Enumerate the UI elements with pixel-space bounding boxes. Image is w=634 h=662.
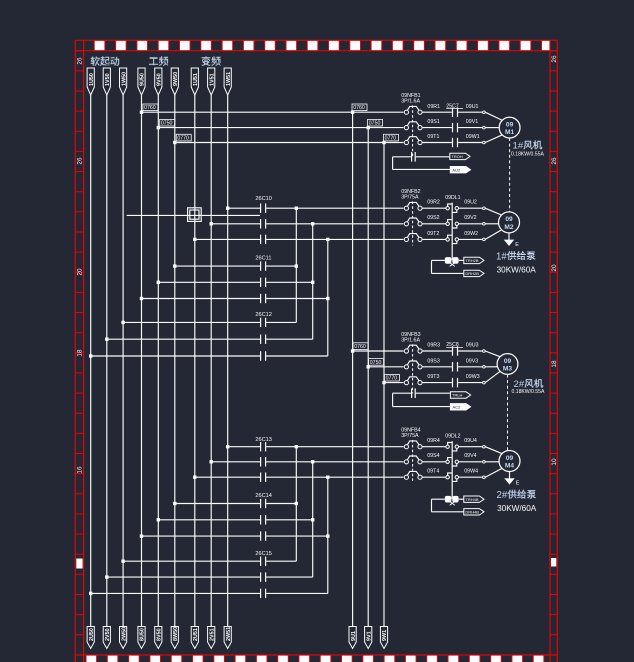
svg-text:2U50: 2U50 [89, 628, 95, 641]
svg-text:M3: M3 [503, 365, 512, 372]
svg-text:20: 20 [77, 268, 84, 276]
svg-text:M4: M4 [505, 462, 514, 469]
svg-text:TRH2B: TRH2B [465, 258, 478, 263]
svg-text:M2: M2 [504, 224, 513, 231]
svg-text:09R2: 09R2 [427, 200, 440, 206]
svg-text:TRH4B: TRH4B [465, 497, 478, 502]
svg-text:TRLH: TRLH [452, 393, 463, 398]
svg-text:18: 18 [551, 360, 558, 368]
svg-text:09R3: 09R3 [427, 343, 440, 349]
svg-text:0770: 0770 [386, 376, 398, 382]
svg-text:09R4: 09R4 [427, 438, 440, 444]
svg-text:18: 18 [77, 349, 84, 357]
svg-text:16: 16 [77, 466, 84, 474]
svg-text:10: 10 [551, 458, 558, 466]
svg-text:26: 26 [77, 157, 84, 165]
svg-text:E: E [515, 242, 519, 248]
svg-text:09: 09 [506, 121, 514, 128]
svg-text:26C12: 26C12 [255, 312, 271, 318]
svg-text:30KW/60A: 30KW/60A [497, 265, 537, 274]
svg-text:8U50: 8U50 [140, 628, 146, 641]
svg-text:09R1: 09R1 [427, 104, 440, 110]
svg-text:1#: 1# [496, 251, 507, 262]
svg-text:26C10: 26C10 [255, 196, 271, 202]
svg-text:09V3: 09V3 [466, 358, 478, 364]
svg-text:09W3: 09W3 [466, 374, 480, 380]
svg-text:09U1: 09U1 [466, 104, 479, 110]
svg-text:AC2: AC2 [453, 405, 462, 410]
svg-text:1V50: 1V50 [105, 73, 111, 86]
svg-text:M1: M1 [505, 129, 514, 136]
svg-text:20: 20 [551, 264, 558, 272]
svg-text:1W50: 1W50 [121, 72, 127, 86]
svg-text:TROH: TROH [451, 154, 462, 159]
svg-text:0750: 0750 [370, 360, 382, 366]
svg-text:26: 26 [551, 157, 558, 165]
svg-text:1V51: 1V51 [209, 73, 215, 86]
svg-text:09T1: 09T1 [427, 134, 439, 140]
svg-text:E: E [516, 480, 520, 486]
svg-text:8W50: 8W50 [173, 627, 179, 641]
svg-text:09: 09 [505, 216, 513, 223]
svg-text:26: 26 [77, 57, 84, 65]
svg-text:0750: 0750 [161, 121, 173, 127]
svg-text:9W1: 9W1 [382, 630, 388, 641]
svg-text:09V2: 09V2 [464, 215, 476, 221]
svg-text:09W4: 09W4 [464, 469, 478, 475]
svg-text:09W2: 09W2 [464, 231, 478, 237]
svg-text:DRH4B: DRH4B [465, 509, 479, 514]
svg-text:0760: 0760 [144, 105, 156, 111]
svg-text:09: 09 [506, 455, 514, 462]
svg-text:2W51: 2W51 [226, 627, 232, 641]
svg-text:09V4: 09V4 [464, 453, 476, 459]
svg-text:9U1: 9U1 [351, 631, 357, 641]
svg-text:9V50: 9V50 [157, 73, 163, 86]
svg-text:0770: 0770 [385, 136, 397, 142]
svg-text:0750: 0750 [369, 121, 381, 127]
svg-text:09U4: 09U4 [464, 438, 477, 444]
svg-text:2#: 2# [497, 490, 508, 501]
svg-text:09: 09 [504, 358, 512, 365]
svg-text:09T3: 09T3 [427, 374, 439, 380]
svg-text:09S3: 09S3 [427, 358, 439, 364]
svg-text:09T4: 09T4 [427, 469, 439, 475]
svg-text:1#: 1# [513, 141, 524, 152]
svg-text:09U2: 09U2 [464, 200, 477, 206]
svg-text:09S4: 09S4 [427, 453, 439, 459]
svg-text:26C13: 26C13 [255, 437, 271, 443]
svg-text:AU2: AU2 [452, 167, 461, 172]
svg-text:2W50: 2W50 [121, 627, 127, 641]
svg-text:2U51: 2U51 [193, 628, 199, 641]
svg-text:8V50: 8V50 [157, 628, 163, 641]
svg-text:26C15: 26C15 [255, 551, 271, 557]
svg-text:26C14: 26C14 [255, 493, 271, 499]
svg-text:9U50: 9U50 [140, 73, 146, 86]
svg-text:09S2: 09S2 [427, 215, 439, 221]
svg-text:3P/1.6A: 3P/1.6A [401, 99, 420, 105]
svg-text:DRH2B: DRH2B [465, 271, 479, 276]
svg-text:3P/1.6A: 3P/1.6A [401, 337, 420, 343]
svg-text:09U3: 09U3 [466, 343, 479, 349]
svg-text:09T2: 09T2 [427, 231, 439, 237]
svg-text:1U51: 1U51 [193, 73, 199, 86]
svg-text:2V50: 2V50 [105, 628, 111, 641]
svg-text:09V1: 09V1 [466, 119, 478, 125]
svg-text:0770: 0770 [177, 136, 189, 142]
svg-text:0760: 0760 [353, 105, 365, 111]
svg-text:09DL1: 09DL1 [445, 195, 460, 201]
svg-text:9V1: 9V1 [366, 631, 372, 641]
svg-text:0.18KW/0.55A: 0.18KW/0.55A [511, 151, 544, 157]
svg-text:26: 26 [551, 55, 558, 63]
svg-text:2V51: 2V51 [209, 628, 215, 641]
svg-text:0.18KW/0.55A: 0.18KW/0.55A [512, 389, 545, 395]
svg-text:9W50: 9W50 [173, 72, 179, 86]
svg-text:3P/75A: 3P/75A [401, 433, 419, 439]
svg-text:3P/75A: 3P/75A [401, 195, 419, 201]
svg-text:0760: 0760 [354, 344, 366, 350]
svg-text:09W1: 09W1 [466, 134, 480, 140]
svg-text:1W51: 1W51 [226, 72, 232, 86]
svg-text:1U50: 1U50 [89, 73, 95, 86]
svg-text:09DL2: 09DL2 [445, 433, 460, 439]
svg-text:09S1: 09S1 [427, 119, 439, 125]
svg-text:30KW/60A: 30KW/60A [497, 504, 537, 513]
svg-text:26C11: 26C11 [255, 255, 271, 261]
